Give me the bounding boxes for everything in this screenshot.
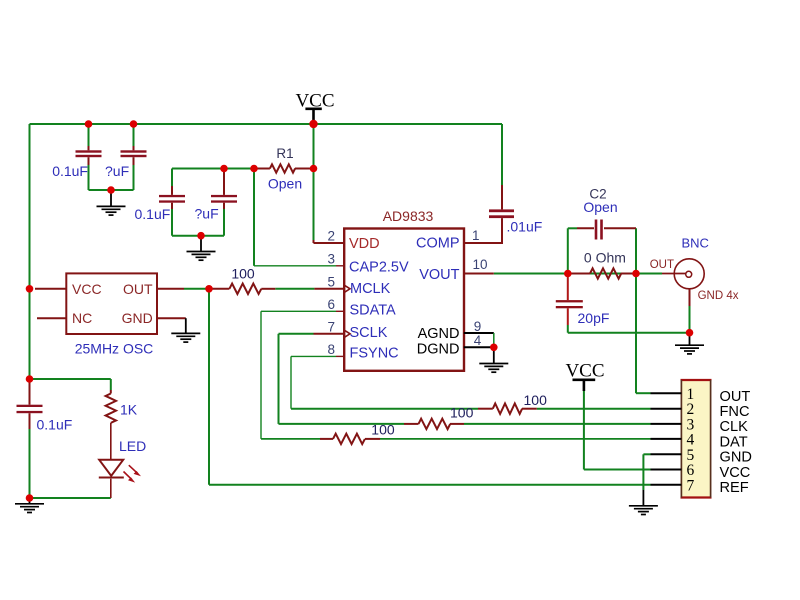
svg-text:NC: NC [72, 310, 92, 326]
svg-text:7: 7 [687, 477, 695, 494]
svg-text:?uF: ?uF [105, 163, 129, 179]
svg-text:10: 10 [473, 257, 488, 272]
svg-text:CAP2.5V: CAP2.5V [349, 260, 409, 276]
svg-text:DGND: DGND [417, 342, 460, 358]
svg-text:0.1uF: 0.1uF [37, 417, 73, 433]
svg-text:VDD: VDD [349, 236, 380, 252]
svg-text:VCC: VCC [72, 281, 102, 297]
svg-text:9: 9 [474, 319, 482, 334]
svg-text:VCC: VCC [720, 465, 751, 481]
svg-text:100: 100 [371, 422, 395, 438]
svg-text:OUT: OUT [123, 281, 153, 297]
svg-text:0 Ohm: 0 Ohm [584, 250, 626, 266]
svg-text:OUT: OUT [720, 389, 751, 405]
svg-text:FSYNC: FSYNC [350, 346, 399, 362]
svg-text:REF: REF [720, 480, 749, 496]
svg-text:5: 5 [327, 275, 335, 290]
svg-text:R1: R1 [276, 146, 293, 161]
svg-text:1: 1 [472, 228, 480, 243]
svg-text:CLK: CLK [720, 419, 749, 435]
svg-text:2: 2 [327, 229, 335, 244]
svg-text:0.1uF: 0.1uF [135, 206, 171, 222]
svg-text:4: 4 [474, 333, 482, 348]
svg-text:6: 6 [327, 297, 335, 312]
svg-text:0.1uF: 0.1uF [52, 163, 88, 179]
svg-text:LED: LED [119, 438, 146, 454]
svg-text:GND: GND [720, 450, 752, 466]
svg-text:?uF: ?uF [195, 206, 219, 222]
svg-text:8: 8 [327, 342, 335, 357]
svg-text:MCLK: MCLK [350, 281, 391, 297]
svg-text:1K: 1K [120, 402, 138, 418]
svg-text:GND: GND [122, 310, 153, 326]
svg-text:VCC: VCC [565, 361, 604, 382]
svg-text:AGND: AGND [418, 326, 460, 342]
svg-text:100: 100 [450, 405, 474, 421]
svg-text:SCLK: SCLK [350, 325, 388, 341]
svg-text:SDATA: SDATA [350, 303, 397, 319]
svg-text:100: 100 [231, 265, 255, 281]
svg-text:DAT: DAT [720, 434, 748, 450]
svg-text:Open: Open [268, 176, 302, 192]
svg-text:3: 3 [327, 252, 335, 267]
svg-text:20pF: 20pF [578, 310, 610, 326]
svg-text:100: 100 [524, 392, 548, 408]
svg-text:BNC: BNC [682, 236, 709, 251]
svg-text:FNC: FNC [720, 404, 750, 420]
svg-text:Open: Open [583, 199, 617, 215]
svg-text:AD9833: AD9833 [383, 208, 434, 224]
svg-text:7: 7 [327, 320, 335, 335]
svg-text:OUT: OUT [650, 259, 674, 271]
svg-text:GND 4x: GND 4x [698, 290, 739, 302]
svg-text:VOUT: VOUT [419, 267, 459, 283]
svg-text:25MHz OSC: 25MHz OSC [75, 341, 154, 357]
svg-text:.01uF: .01uF [507, 219, 543, 235]
svg-text:COMP: COMP [416, 236, 460, 252]
